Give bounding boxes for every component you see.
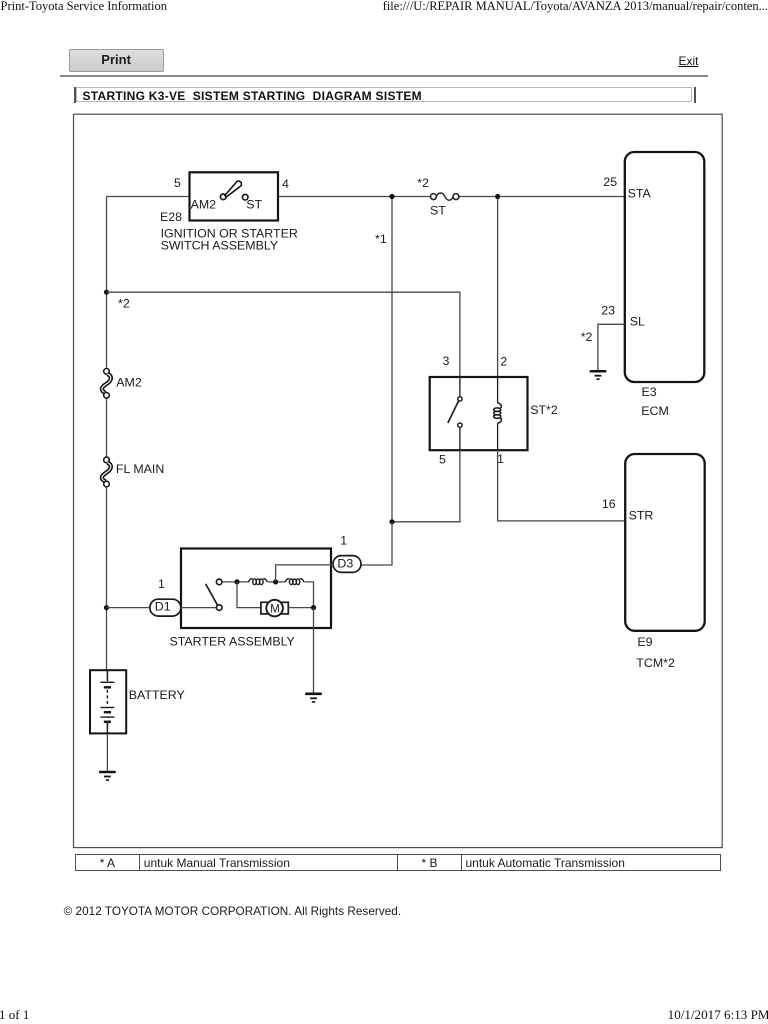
svg-text:ST: ST xyxy=(430,204,446,218)
svg-text:FL MAIN: FL MAIN xyxy=(116,462,164,476)
wire: coil 2 to motor right node xyxy=(305,582,314,608)
battery box xyxy=(90,670,126,733)
svg-text:3: 3 xyxy=(443,354,450,368)
wire: motor to right node xyxy=(288,607,313,609)
ground at SL xyxy=(590,371,607,379)
motor M xyxy=(261,600,288,617)
svg-text:ST: ST xyxy=(246,197,262,211)
ground at starter xyxy=(305,694,322,702)
fuse FL MAIN xyxy=(102,457,111,487)
svg-text:D1: D1 xyxy=(155,599,171,613)
svg-text:1: 1 xyxy=(158,577,165,591)
starter coil 1 (pull-in) xyxy=(249,579,268,585)
relay ST*2 box xyxy=(430,377,528,450)
wire: node down and left to connector D3 xyxy=(361,522,392,565)
wire: vertical to relay pin 2 xyxy=(497,197,499,378)
TCM box E9 xyxy=(625,454,705,631)
svg-text:*2: *2 xyxy=(581,330,593,344)
svg-text:E3: E3 xyxy=(642,385,657,399)
svg-text:5: 5 xyxy=(174,176,181,190)
svg-text:STARTER ASSEMBLY: STARTER ASSEMBLY xyxy=(170,635,295,649)
wire: coil junction up and right through D3 xyxy=(276,565,333,582)
svg-text:2: 2 xyxy=(500,354,507,368)
svg-text:AM2: AM2 xyxy=(191,197,217,211)
ignition switch box E28 xyxy=(190,172,279,220)
node: motor/ground junction xyxy=(311,605,316,610)
node: junction between coils to D3 xyxy=(273,579,278,584)
wire: *1 vertical from top wire to starter junction xyxy=(391,197,393,522)
svg-text:D3: D3 xyxy=(337,556,353,570)
svg-text:25: 25 xyxy=(603,175,617,189)
svg-text:SWITCH ASSEMBLY: SWITCH ASSEMBLY xyxy=(161,238,279,252)
wire: switch to coil 1 xyxy=(222,581,249,583)
wire: battery negative to ground xyxy=(106,734,108,772)
wire: ignition switch pin5 to left trunk xyxy=(107,196,190,198)
svg-text:TCM*2: TCM*2 xyxy=(636,656,675,670)
svg-text:ST*2: ST*2 xyxy=(530,403,558,417)
relay switch xyxy=(448,377,462,450)
wire: fuse ST to ECM pin 25 xyxy=(459,196,625,198)
wire: relay pin 1 to TCM pin 16 xyxy=(498,450,626,521)
wire: between coils xyxy=(268,581,286,583)
starter coil 2 (hold-in) xyxy=(285,579,304,585)
node: top wire junction at *1 xyxy=(389,194,394,199)
starter assembly box xyxy=(181,549,331,629)
svg-text:BATTERY: BATTERY xyxy=(129,688,185,702)
node: trunk *2 branch junction xyxy=(104,290,109,295)
ignition switch contact AM2 xyxy=(220,194,226,200)
wire: relay pin 5 down to node xyxy=(392,450,460,522)
svg-text:ECM: ECM xyxy=(641,404,669,418)
svg-text:1: 1 xyxy=(340,534,347,548)
connector D1 xyxy=(150,599,181,616)
node: trunk D1 branch junction xyxy=(104,605,109,610)
svg-text:STA: STA xyxy=(628,186,652,200)
node: junction of *1, relay pin5 and D3 xyxy=(389,519,394,524)
wire: SL stub to ground xyxy=(598,324,625,370)
wire: D1 into starter switch xyxy=(181,607,217,609)
wire: ignition switch pin4 to fuse ST xyxy=(278,196,431,198)
svg-text:STR: STR xyxy=(629,508,654,522)
wire: *2 branch to relay pin 3 xyxy=(107,292,460,377)
node: junction at starter coil feed xyxy=(234,579,239,584)
svg-text:E28: E28 xyxy=(160,210,182,224)
svg-text:4: 4 xyxy=(282,177,289,191)
svg-text:M: M xyxy=(270,603,280,615)
fuse AM2 xyxy=(102,369,111,399)
ECM box E3 xyxy=(625,152,705,382)
svg-text:23: 23 xyxy=(601,303,615,317)
ignition switch key lever xyxy=(225,181,242,197)
svg-text:E9: E9 xyxy=(637,635,652,649)
svg-text:*1: *1 xyxy=(375,232,387,246)
svg-text:AM2: AM2 xyxy=(116,376,142,390)
wire: starter down to ground xyxy=(313,608,315,694)
svg-text:SL: SL xyxy=(630,314,645,328)
svg-text:5: 5 xyxy=(439,452,446,466)
wire: trunk to connector D1 xyxy=(107,607,151,609)
ignition switch contact ST xyxy=(242,194,248,200)
svg-text:*2: *2 xyxy=(118,297,130,311)
battery cells xyxy=(100,670,114,733)
relay coil xyxy=(494,377,502,450)
fuse ST xyxy=(431,193,459,200)
starter magnetic switch xyxy=(206,579,222,610)
ground at battery xyxy=(99,772,116,780)
svg-text:16: 16 xyxy=(602,497,616,511)
wire: left trunk vertical xyxy=(106,197,108,671)
node: top wire junction at relay feed xyxy=(495,194,500,199)
svg-text:*2: *2 xyxy=(417,176,429,190)
connector D3 xyxy=(333,556,361,573)
wire: junction down to motor xyxy=(237,582,261,608)
